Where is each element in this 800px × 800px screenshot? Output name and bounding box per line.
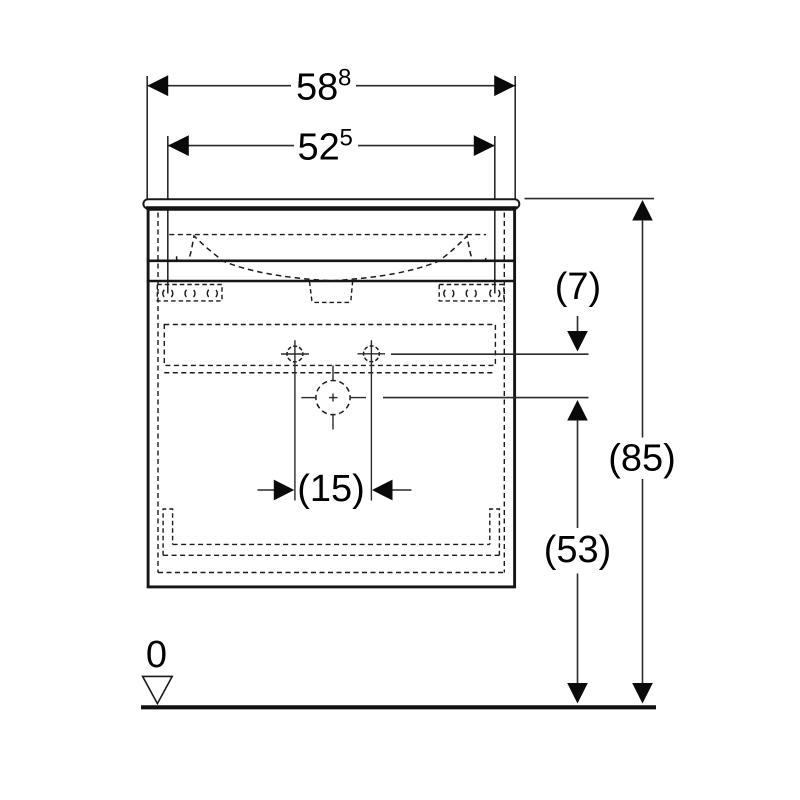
dimension 52.5: left extension line: [167, 136, 169, 294]
cabinet outer box: [148, 209, 514, 587]
cabinet rail line lower: [147, 280, 516, 283]
left hinge screw hole 3: [207, 288, 217, 298]
left tap hole dashed circle: [287, 346, 303, 362]
dimension 15: right arrowhead pointing left: [372, 480, 393, 501]
right hinge screw hole 3: [490, 288, 500, 298]
dimension 52.5: left arrowhead: [168, 135, 189, 156]
left hinge screw hole 1: [163, 288, 173, 298]
extension line from mixer hole to right: [383, 397, 589, 399]
svg-text:(85): (85): [608, 438, 676, 480]
cabinet rail line upper: [147, 259, 516, 262]
right hinge screw hole 2: [466, 288, 476, 298]
svg-text:52: 52: [298, 126, 340, 168]
tap ledge dashed rectangle: [164, 325, 495, 366]
svg-text:0: 0: [146, 634, 167, 676]
svg-text:(53): (53): [544, 529, 612, 571]
left hinge dashed box: [157, 285, 222, 301]
drawer right side pocket dashed profile: [490, 509, 500, 555]
dimension 15: left tail line: [258, 489, 276, 491]
left tap hole horizontal centerline: [281, 353, 309, 355]
mixer hole centerline left tick: [301, 397, 316, 399]
dimension 53: upper line segment: [577, 420, 579, 529]
washbasin slab outline: [143, 199, 519, 208]
dimension 85: upper line segment: [642, 220, 644, 438]
dimension 52.5: right arrowhead: [474, 135, 495, 156]
mixer hole centerline inner horizontal tick: [329, 397, 338, 399]
dimension 58.8: right arrowhead: [494, 75, 515, 96]
drawer bottom outer dashed line: [163, 554, 499, 556]
drain recess dashed trapezoid: [310, 282, 353, 303]
dimension 53: bottom arrowhead pointing down: [567, 683, 588, 704]
mixer hole centerline top tick: [332, 366, 334, 382]
left tap hole vertical line extended for dim 15: [294, 340, 296, 500]
dimension 85: bottom arrowhead pointing down: [632, 683, 653, 704]
dimension 85: top extension line: [525, 198, 655, 200]
dimension 53: top arrowhead pointing up: [567, 400, 588, 421]
right tap hole vertical line extended for dim 15: [370, 340, 372, 500]
washbasin slab bottom thick edge: [146, 206, 517, 209]
dimension 52.5: dimension line right segment: [358, 145, 495, 147]
right hinge screw hole 1: [444, 288, 454, 298]
basin bowl hidden dashed curve: [177, 236, 486, 281]
mixer hole dashed circle: [316, 381, 350, 415]
dimension 85: lower line segment: [642, 479, 644, 688]
mixer hole centerline inner vertical tick: [332, 394, 334, 402]
svg-text:5: 5: [340, 124, 353, 151]
floor line: [141, 705, 656, 709]
dimension 7: arrow stem: [577, 316, 579, 333]
hidden dashed line below tap ledge: [164, 372, 495, 374]
svg-text:(15): (15): [297, 468, 365, 510]
drawer bottom inner dashed line: [173, 543, 490, 545]
dimension 52.5: right extension line: [494, 136, 496, 294]
svg-text:8: 8: [338, 65, 351, 92]
extension line from tap holes to right: [391, 353, 589, 355]
svg-text:(7): (7): [555, 266, 601, 308]
dimension 15: right tail line: [392, 489, 412, 491]
dimension 58.8: left extension line: [146, 76, 148, 200]
left hinge screw hole 2: [185, 288, 195, 298]
right tap hole dashed circle: [364, 346, 380, 362]
cabinet interior dashed right vertical: [503, 213, 505, 573]
mixer hole centerline right tick: [350, 397, 367, 399]
cabinet interior dashed bottom horizontal: [158, 572, 504, 574]
right hinge dashed box: [439, 285, 504, 301]
dimension 58.8: dimension line left segment: [147, 85, 291, 87]
dimension 85: top arrowhead pointing up: [632, 200, 653, 221]
dimension 15: left arrowhead pointing right: [274, 480, 295, 501]
right tap hole horizontal centerline: [358, 353, 386, 355]
dimension 52.5: dimension line left segment: [168, 145, 294, 147]
basin rim hidden dashed line: [169, 234, 486, 236]
svg-text:58: 58: [296, 67, 338, 109]
dimension 58.8: right extension line: [514, 76, 516, 200]
dimension 58.8: dimension line right segment: [356, 85, 515, 87]
datum triangle: [143, 676, 173, 703]
mixer hole centerline bottom tick: [332, 414, 334, 430]
dimension 53: lower line segment: [577, 574, 579, 688]
cabinet interior dashed left vertical: [157, 213, 159, 573]
dimension 7: down arrowhead: [567, 331, 588, 352]
drawer left side pocket dashed profile: [163, 509, 173, 555]
dimension 58.8: left arrowhead: [147, 75, 168, 96]
